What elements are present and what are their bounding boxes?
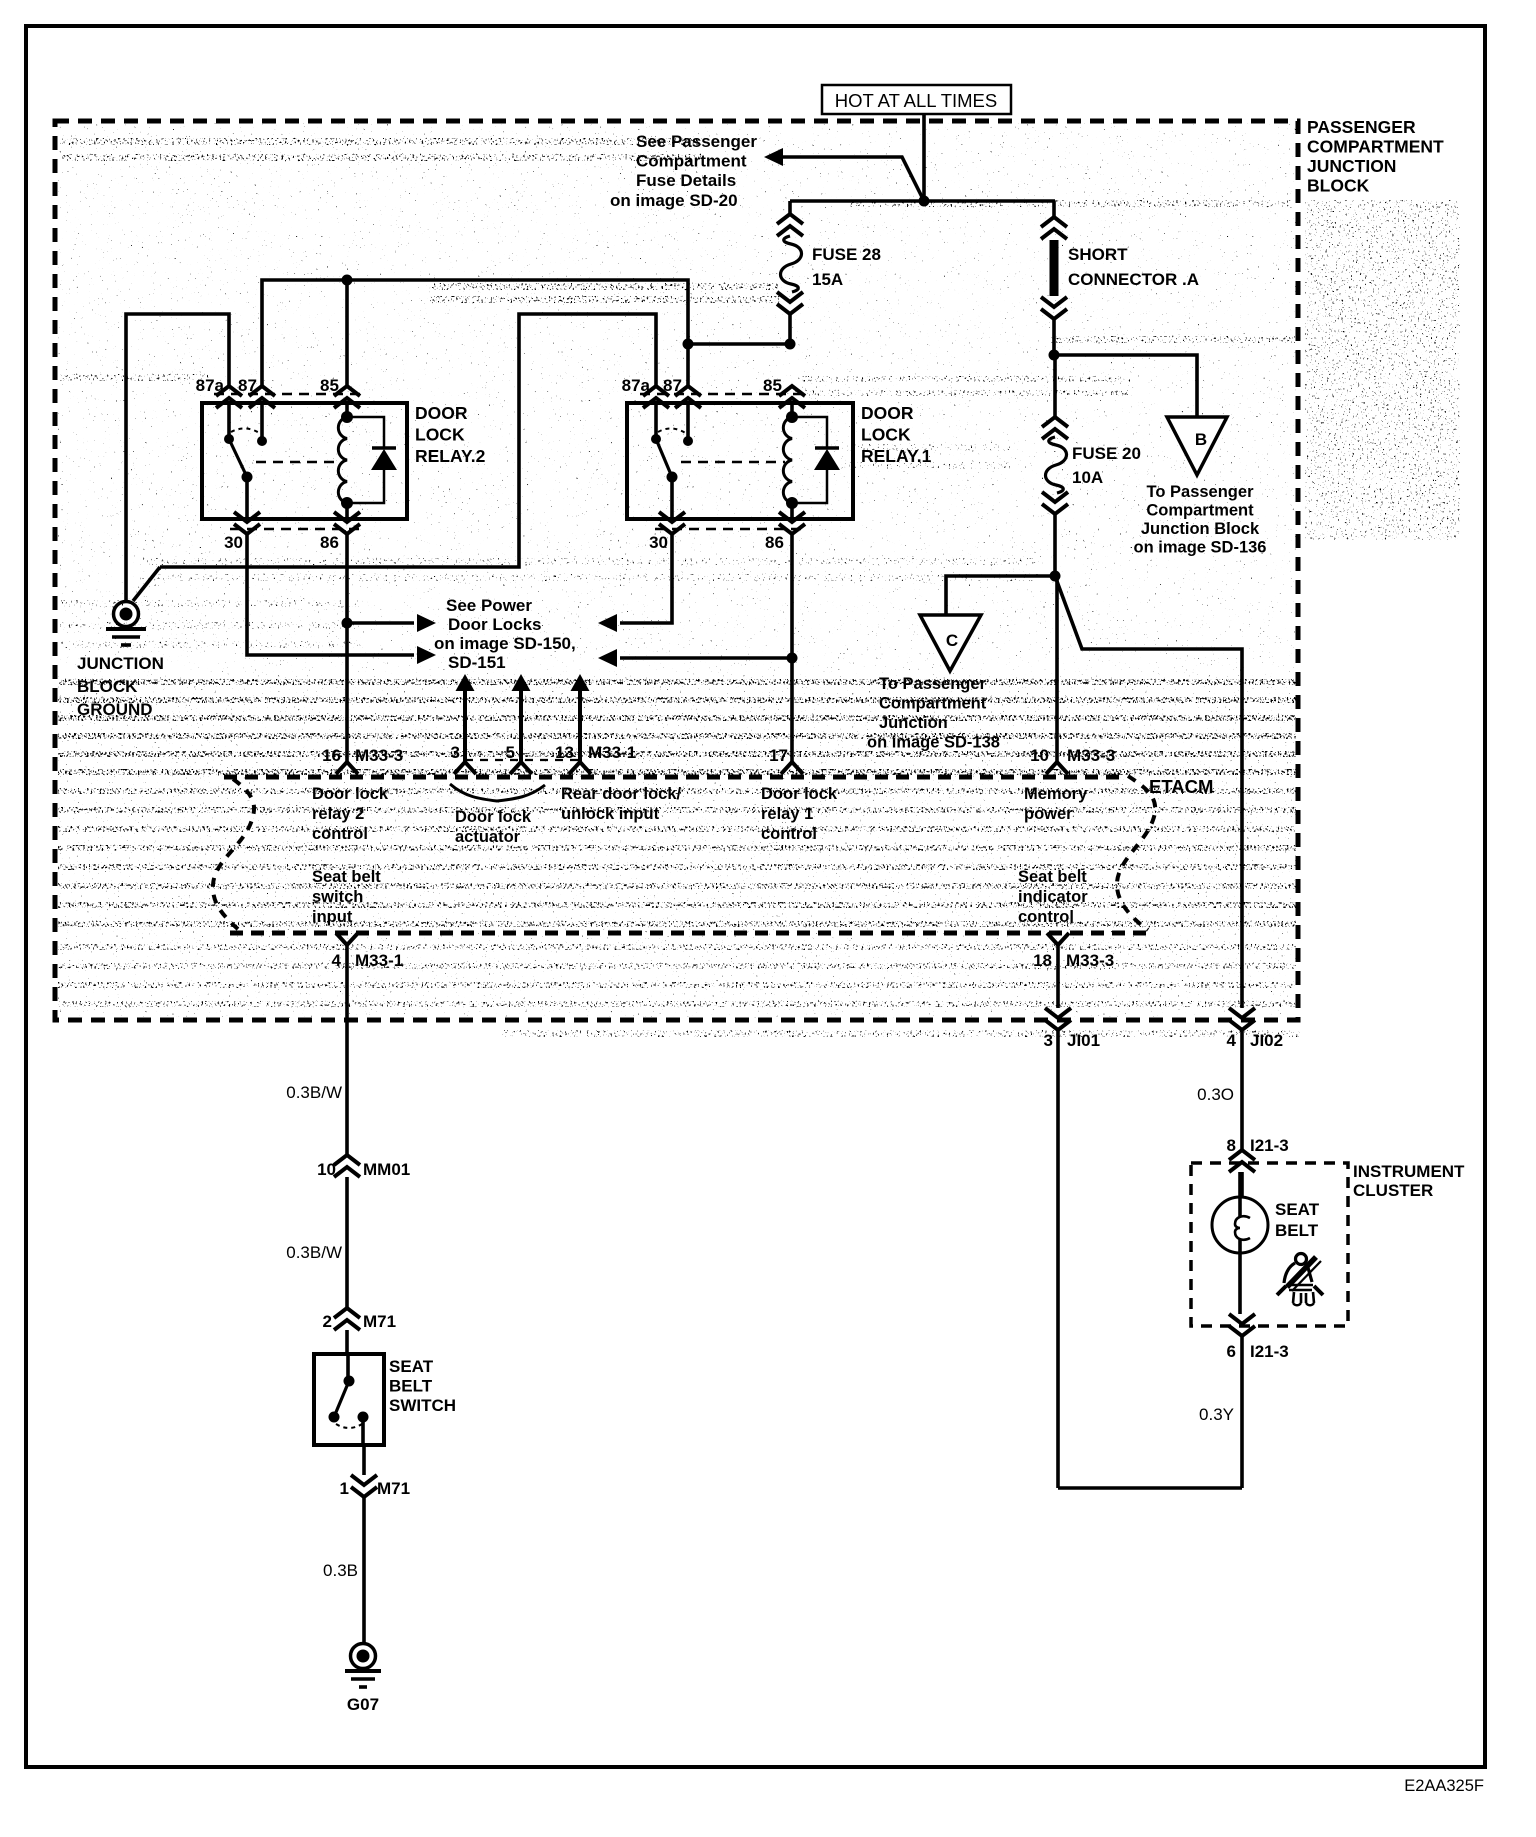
brace door lock actuator (450, 784, 545, 801)
relay K2 DOOR LOCK RELAY.2 (196, 376, 407, 552)
svg-text:To Passenger: To Passenger (879, 675, 987, 693)
svg-text:input: input (312, 908, 353, 926)
svg-text:indicator: indicator (1018, 888, 1088, 906)
svg-text:COMPARTMENT: COMPARTMENT (1307, 137, 1444, 157)
svg-text:Seat belt: Seat belt (1018, 868, 1087, 886)
svg-text:0.3O: 0.3O (1197, 1085, 1234, 1104)
ETACM pins 3,5,13 (M33-1) (454, 762, 476, 774)
wire to relay2 pin85 (345, 280, 349, 386)
wire relay1 pin30 to SD-150 arrow left (620, 534, 672, 623)
connector JI02 pin 4 (1229, 1008, 1255, 1030)
junction pin86/SD-150 (342, 618, 353, 629)
wire ground to relay2 87a (126, 314, 229, 601)
svg-text:85: 85 (763, 376, 782, 395)
svg-text:2: 2 (323, 1312, 332, 1331)
svg-text:Memory: Memory (1024, 785, 1088, 803)
svg-text:LOCK: LOCK (861, 425, 911, 445)
wire short connector to fuse 20 (1053, 355, 1057, 417)
relay K1 DOOR LOCK RELAY.1 (622, 376, 853, 552)
svg-text:6: 6 (1227, 1342, 1236, 1361)
svg-text:BELT: BELT (389, 1377, 433, 1396)
svg-text:M33-3: M33-3 (1067, 746, 1115, 765)
diode relay2 (347, 417, 384, 448)
ETACM pin 10 (1046, 762, 1068, 774)
svg-text:M33-1: M33-1 (355, 951, 403, 970)
ETACM pin 16 (336, 762, 358, 774)
svg-text:87: 87 (238, 376, 257, 395)
svg-text:Compartment: Compartment (636, 152, 747, 171)
svg-text:FUSE 28: FUSE 28 (812, 245, 881, 264)
svg-text:SHORT: SHORT (1068, 245, 1128, 264)
svg-text:87: 87 (663, 376, 682, 395)
svg-text:13: 13 (555, 743, 574, 762)
svg-text:Door Locks: Door Locks (448, 615, 542, 634)
wire to Fuse Details SD-20 (778, 157, 924, 201)
svg-text:8: 8 (1227, 1136, 1236, 1155)
wire fuse28 to relay1-87 (688, 342, 790, 346)
svg-text:See Power: See Power (446, 596, 532, 615)
junction bus/relay2-85 (342, 275, 353, 286)
switch SEAT BELT SWITCH (314, 1354, 384, 1445)
wire JI02 to I21-3 (1240, 1030, 1244, 1150)
svg-text:control: control (761, 825, 817, 843)
svg-text:INSTRUMENT: INSTRUMENT (1353, 1162, 1465, 1181)
svg-text:M33-1: M33-1 (588, 743, 636, 762)
svg-text:CLUSTER: CLUSTER (1353, 1181, 1433, 1200)
svg-text:15A: 15A (812, 270, 843, 289)
svg-text:Junction Block: Junction Block (1141, 520, 1260, 538)
wire 0.3Y down (1240, 1336, 1244, 1488)
wire bottom U join (1058, 1486, 1242, 1490)
connector MM01 pin 10 (334, 1155, 360, 1177)
svg-text:M71: M71 (377, 1479, 410, 1498)
wire ETACM pin to door-lock actuator arrow x=580 (578, 691, 582, 762)
svg-text:30: 30 (649, 533, 668, 552)
off-page connector B (1167, 417, 1227, 475)
svg-text:87a: 87a (622, 376, 651, 395)
svg-text:Rear door lock/: Rear door lock/ (561, 785, 682, 803)
svg-text:86: 86 (320, 533, 339, 552)
scan noise (decorative) (58, 123, 1296, 1018)
svg-text:Door lock: Door lock (455, 808, 532, 826)
svg-text:Compartment: Compartment (1146, 502, 1254, 520)
lamp SEAT BELT indicator (1238, 1172, 1242, 1314)
svg-text:PASSENGER: PASSENGER (1307, 117, 1416, 137)
svg-text:SEAT: SEAT (1275, 1200, 1320, 1219)
connector I21-3 pin 8 (1229, 1150, 1255, 1172)
connector M71 pin 1 (351, 1475, 377, 1497)
wire to connector B (1054, 355, 1197, 417)
svg-text:Door lock: Door lock (761, 785, 838, 803)
svg-text:87a: 87a (196, 376, 225, 395)
wire 0.3B to ground (362, 1497, 366, 1643)
wire fuse20 to JI02 (1055, 576, 1242, 1008)
junction fuse28/relay1-87 (785, 339, 796, 350)
ground junction block (114, 602, 139, 627)
seat belt icon (1277, 1254, 1323, 1306)
connector M71 pin 2 (334, 1308, 360, 1330)
svg-text:GROUND: GROUND (77, 700, 153, 719)
svg-text:FUSE 20: FUSE 20 (1072, 444, 1141, 463)
svg-text:SD-151: SD-151 (448, 653, 506, 672)
wire to SD-150 arrow (347, 621, 414, 625)
junction bus/hot (919, 196, 930, 207)
svg-text:5: 5 (506, 743, 515, 762)
wire relay2 pin86 to ETACM pin16 (345, 534, 349, 762)
svg-text:DOOR: DOOR (861, 403, 914, 423)
svg-text:relay 2: relay 2 (312, 805, 364, 823)
svg-text:4: 4 (1227, 1031, 1237, 1050)
svg-text:10: 10 (1030, 746, 1049, 765)
svg-text:See Passenger: See Passenger (636, 132, 757, 151)
svg-text:SWITCH: SWITCH (389, 1396, 456, 1415)
wire M71 to switch (345, 1330, 349, 1354)
wire switch to M71 pin1 (362, 1445, 366, 1475)
wire relay1 87a to ground run (160, 314, 656, 567)
svg-text:0.3B/W: 0.3B/W (286, 1083, 342, 1102)
junction relay1-87/fuse28 (683, 339, 694, 350)
svg-text:ETACM: ETACM (1149, 776, 1213, 797)
svg-text:85: 85 (320, 376, 339, 395)
svg-text:on image SD-136: on image SD-136 (1134, 539, 1267, 557)
svg-text:BELT: BELT (1275, 1221, 1319, 1240)
instrument cluster boundary (1191, 1163, 1348, 1326)
fuse F20 connector chevrons top (1042, 417, 1068, 439)
svg-text:0.3B/W: 0.3B/W (286, 1243, 342, 1262)
svg-text:M33-3: M33-3 (355, 746, 403, 765)
svg-text:1: 1 (340, 1479, 349, 1498)
svg-text:JI01: JI01 (1067, 1031, 1100, 1050)
fuse F28 connector chevrons bottom (777, 292, 803, 314)
ETACM pin 18 (1047, 933, 1069, 945)
wire relay2 pin30 to SD-151 arrow (247, 534, 414, 655)
svg-text:To Passenger: To Passenger (1147, 483, 1255, 501)
module ETACM boundary (224, 775, 1127, 780)
svg-text:on image SD-150,: on image SD-150, (434, 634, 576, 653)
svg-text:M33-3: M33-3 (1066, 951, 1114, 970)
svg-text:10A: 10A (1072, 468, 1103, 487)
svg-text:JI02: JI02 (1250, 1031, 1283, 1050)
short connector A chevrons top (1041, 217, 1067, 239)
svg-text:JUNCTION: JUNCTION (1307, 156, 1396, 176)
wire bus relay2-87 to relay1-87 (262, 280, 688, 386)
wire bus B+ (790, 199, 1055, 203)
svg-text:86: 86 (765, 533, 784, 552)
svg-text:SEAT: SEAT (389, 1357, 434, 1376)
svg-text:LOCK: LOCK (415, 425, 465, 445)
wire bus to short connector (1052, 201, 1056, 217)
svg-text:30: 30 (224, 533, 243, 552)
svg-text:DOOR: DOOR (415, 403, 468, 423)
wire MM01 to M71 (345, 1177, 349, 1308)
svg-text:3: 3 (1044, 1031, 1053, 1050)
svg-text:Compartment: Compartment (879, 695, 987, 713)
connector JI01 pin 3 (1045, 1008, 1071, 1030)
svg-text:RELAY.1: RELAY.1 (861, 446, 932, 466)
svg-text:switch: switch (312, 888, 363, 906)
svg-text:C: C (946, 631, 958, 650)
svg-text:BLOCK: BLOCK (1307, 176, 1370, 196)
ETACM pin 17 (781, 762, 803, 774)
off-page connector C (920, 615, 981, 671)
svg-text:4: 4 (332, 951, 342, 970)
svg-text:actuator: actuator (455, 828, 521, 846)
wire to SD-151 arrow left (620, 656, 792, 660)
svg-text:B: B (1195, 430, 1207, 449)
svg-text:BLOCK: BLOCK (77, 677, 138, 696)
short connector A chevrons bottom (1041, 297, 1067, 319)
wire relay1 pin86 to ETACM pin17 (790, 534, 794, 762)
svg-text:control: control (1018, 908, 1074, 926)
node HOT AT ALL TIMES (822, 85, 1011, 114)
svg-text:CONNECTOR .A: CONNECTOR .A (1068, 270, 1199, 289)
svg-text:power: power (1024, 805, 1073, 823)
svg-text:16: 16 (322, 746, 341, 765)
svg-text:control: control (312, 825, 368, 843)
wire bus to fuse 28 (788, 201, 792, 216)
fuse F20 10A (1046, 437, 1067, 493)
svg-text:3: 3 (451, 743, 460, 762)
fuse F28 connector chevrons top (777, 214, 803, 236)
svg-text:unlock input: unlock input (561, 805, 660, 823)
svg-text:G07: G07 (347, 1695, 379, 1714)
svg-text:M71: M71 (363, 1312, 396, 1331)
svg-text:I21-3: I21-3 (1250, 1342, 1289, 1361)
svg-text:18: 18 (1033, 951, 1052, 970)
svg-text:Seat belt: Seat belt (312, 868, 381, 886)
short connector A body (1050, 240, 1059, 296)
ground G07 (351, 1644, 376, 1669)
wire from HOT AT ALL TIMES to bus (922, 114, 926, 201)
fuse F28 15A (781, 236, 802, 292)
svg-text:Door lock: Door lock (312, 785, 389, 803)
ETACM pin 4 (336, 933, 358, 945)
svg-text:10: 10 (317, 1160, 336, 1179)
svg-text:on image SD-138: on image SD-138 (867, 734, 1000, 752)
junction fuse20 out (1050, 571, 1061, 582)
svg-text:17: 17 (769, 746, 788, 765)
svg-text:0.3B: 0.3B (323, 1561, 358, 1580)
junction short-connector/B (1049, 350, 1060, 361)
svg-text:on image SD-20: on image SD-20 (610, 191, 738, 210)
wire JI01 down (1056, 1030, 1060, 1488)
wire ETACM pin4 to MM01 (345, 945, 349, 1155)
svg-text:MM01: MM01 (363, 1160, 410, 1179)
svg-text:RELAY.2: RELAY.2 (415, 446, 486, 466)
diode relay1 (792, 417, 827, 448)
junction pin86-1/SD-151 (787, 653, 798, 664)
svg-text:Fuse Details: Fuse Details (636, 171, 736, 190)
svg-text:relay 1: relay 1 (761, 805, 813, 823)
passenger compartment junction block boundary (55, 121, 1298, 1020)
svg-text:I21-3: I21-3 (1250, 1136, 1289, 1155)
wire ETACM pin18 to JI01 (1056, 945, 1060, 1008)
wire ground diagonal (133, 567, 160, 601)
svg-text:Junction: Junction (879, 714, 948, 732)
wire to connector C (946, 576, 1055, 615)
wire fuse20 to ETACM pin10 (1055, 576, 1059, 762)
svg-text:E2AA325F: E2AA325F (1404, 1777, 1484, 1795)
fuse F20 connector chevrons bottom (1042, 492, 1068, 514)
svg-text:0.3Y: 0.3Y (1199, 1405, 1234, 1424)
svg-text:HOT AT ALL TIMES: HOT AT ALL TIMES (835, 90, 997, 111)
connector I21-3 pin 6 (1229, 1314, 1255, 1336)
wire ETACM pin to door-lock actuator arrow x=465 (463, 691, 467, 762)
wire ETACM pin to door-lock actuator arrow x=521 (519, 691, 523, 762)
svg-text:JUNCTION: JUNCTION (77, 654, 164, 673)
